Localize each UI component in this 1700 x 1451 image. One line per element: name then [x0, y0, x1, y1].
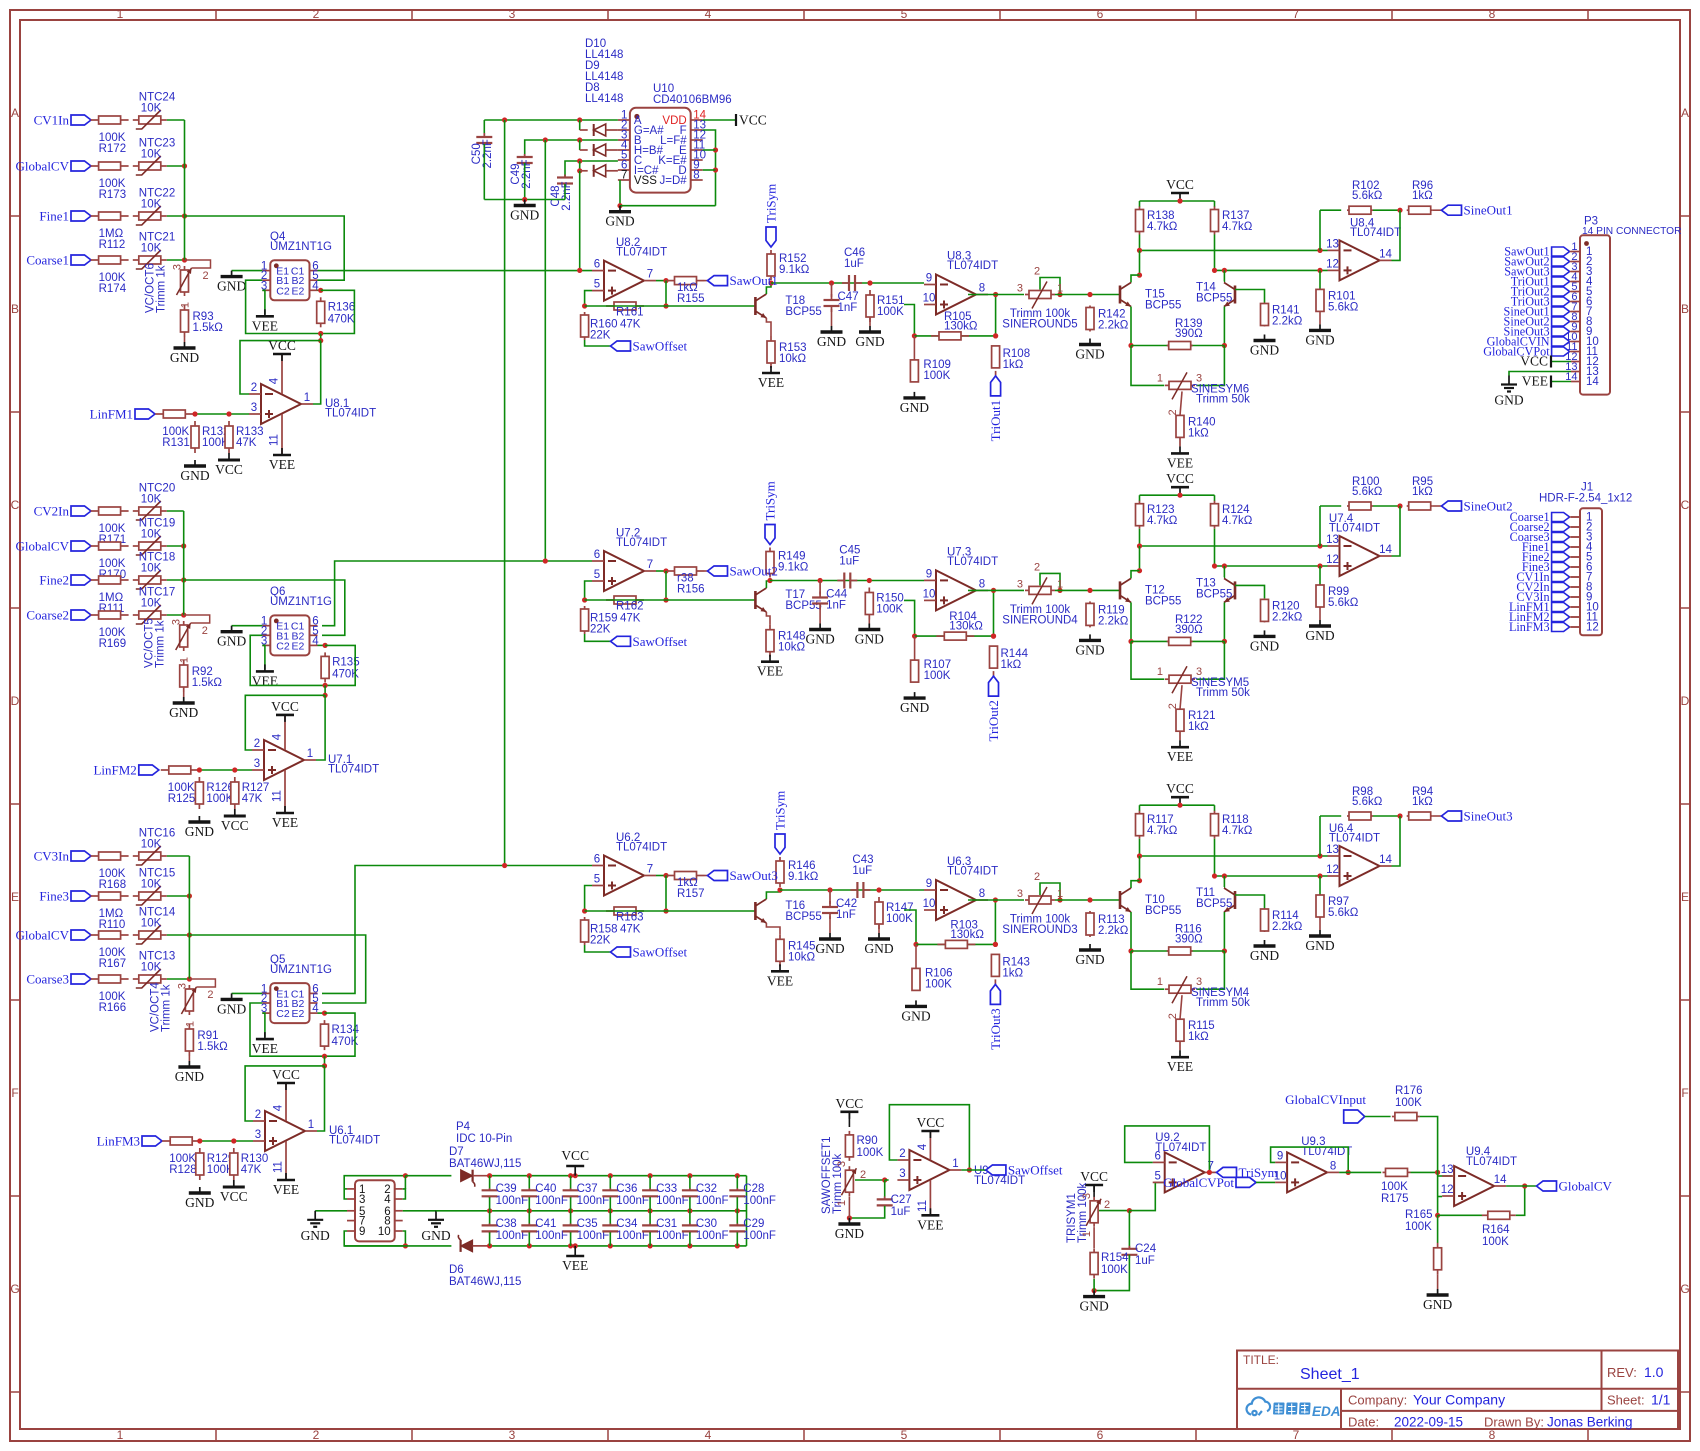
wire emitter: [766, 318, 771, 336]
svg-text:2: 2: [1167, 1013, 1179, 1019]
wire VCC rail: [1140, 494, 1215, 496]
net port SineOut3: [1442, 809, 1513, 824]
svg-text:2022-09-15: 2022-09-15: [1394, 1415, 1463, 1430]
svg-text:100K: 100K: [924, 670, 951, 682]
wire to ground: [1094, 1255, 1129, 1291]
svg-text:VSS: VSS: [634, 175, 657, 187]
svg-text:130kΩ: 130kΩ: [944, 320, 978, 332]
svg-text:7: 7: [647, 864, 653, 876]
svg-text:7: 7: [647, 269, 653, 281]
transistor T14: [1196, 282, 1235, 307]
svg-text:1: 1: [1157, 372, 1163, 384]
resistor R119: [1086, 601, 1129, 627]
svg-text:10K: 10K: [141, 494, 162, 506]
ground: [900, 392, 929, 415]
svg-text:E: E: [1681, 890, 1689, 904]
svg-text:VCC: VCC: [1166, 781, 1194, 796]
svg-text:1: 1: [308, 1119, 314, 1131]
connector P4 IDC 10-Pin: [347, 1121, 512, 1241]
transistor T15: [1120, 283, 1181, 312]
power VEE: [252, 309, 278, 333]
svg-text:VCC: VCC: [1080, 1169, 1108, 1184]
trimmer SINESYM5: [1157, 666, 1250, 699]
wire: [705, 280, 708, 282]
resistor R120: [1261, 598, 1303, 623]
svg-text:VEE: VEE: [1167, 1059, 1193, 1074]
wire collector: [766, 890, 780, 899]
wire to symmetry trimmer: [1131, 951, 1164, 989]
capacitor C43: [850, 854, 873, 898]
svg-text:1: 1: [1081, 1231, 1093, 1237]
svg-text:130kΩ: 130kΩ: [950, 929, 984, 941]
svg-text:GND: GND: [1250, 343, 1279, 358]
svg-text:3: 3: [255, 1129, 261, 1141]
resistor R123: [1136, 495, 1178, 529]
capacitor C36: [602, 1173, 649, 1213]
resistor R: [606, 596, 644, 613]
svg-text:3: 3: [836, 1161, 848, 1167]
svg-text:D7: D7: [449, 1146, 464, 1158]
svg-text:SawOffset: SawOffset: [633, 339, 688, 354]
wire CV sum bus: [183, 511, 185, 615]
wire Fine2 to B2: [184, 580, 345, 635]
net port SawOut1: [1504, 245, 1571, 259]
svg-text:BCP55: BCP55: [785, 600, 821, 612]
svg-text:100K: 100K: [1405, 1221, 1432, 1233]
svg-text:1: 1: [184, 1021, 196, 1027]
svg-text:1kΩ: 1kΩ: [1188, 1031, 1209, 1043]
svg-text:R176: R176: [1395, 1085, 1423, 1097]
net port Fine3: [39, 889, 91, 904]
svg-text:A: A: [11, 106, 19, 120]
net port Coarse2: [26, 608, 91, 623]
svg-text:TL074IDT: TL074IDT: [616, 537, 667, 549]
resistor R143: [991, 942, 1030, 980]
wire to output: [993, 590, 995, 636]
svg-text:1kΩ: 1kΩ: [1412, 796, 1433, 808]
net port GlobalCV: [16, 539, 91, 554]
wire to diff pair: [1055, 294, 1120, 296]
svg-text:R173: R173: [99, 189, 127, 201]
svg-text:R168: R168: [99, 879, 127, 891]
power VEE: [1167, 731, 1193, 764]
svg-text:C38: C38: [496, 1218, 517, 1230]
capacitor C41: [521, 1211, 568, 1249]
op-amp U8.3: [923, 251, 999, 315]
svg-text:GND: GND: [815, 941, 844, 956]
svg-text:GND: GND: [421, 1228, 450, 1243]
svg-text:SineOut1: SineOut1: [1464, 203, 1513, 218]
svg-text:VCC: VCC: [215, 462, 243, 477]
svg-text:GlobalCV: GlobalCV: [16, 928, 70, 943]
svg-text:9.1kΩ: 9.1kΩ: [778, 562, 809, 574]
svg-text:C24: C24: [1135, 1243, 1157, 1255]
svg-text:2: 2: [251, 382, 257, 394]
svg-text:VEE: VEE: [917, 1217, 943, 1232]
svg-text:TriSym: TriSym: [764, 184, 779, 223]
resistor R133: [225, 421, 264, 453]
svg-text:2: 2: [254, 738, 260, 750]
wire to non-inverting input: [193, 413, 249, 415]
wire feedback down: [665, 281, 667, 306]
svg-text:8: 8: [1489, 7, 1496, 21]
ground: [217, 626, 246, 649]
svg-text:GND: GND: [1494, 393, 1523, 408]
op-amp U8.4: [1326, 217, 1401, 280]
resistor R99: [1316, 566, 1359, 620]
wire: [705, 875, 708, 877]
ground: [835, 1218, 864, 1241]
svg-text:B: B: [1681, 302, 1689, 316]
wire pins 2 4: [403, 1189, 406, 1199]
wire: [167, 614, 184, 616]
net port LinFM1: [1509, 600, 1580, 614]
svg-text:BAT46WJ,115: BAT46WJ,115: [449, 1276, 521, 1288]
power VCC: [271, 699, 299, 830]
net port SawOffset: [611, 339, 688, 354]
net port CV3In: [1516, 590, 1580, 604]
wire feedback U9.3: [1271, 1147, 1349, 1172]
resistor R136: [317, 297, 356, 327]
trimmer SINEROUND4: [1002, 561, 1078, 626]
resistor R175: [1339, 1168, 1410, 1205]
label U8.2: [616, 237, 667, 259]
resistor R115: [1176, 1019, 1215, 1043]
svg-text:100K: 100K: [1101, 1264, 1128, 1276]
svg-text:TriOut2: TriOut2: [986, 700, 1001, 741]
wire E2 node: [318, 1012, 325, 1014]
svg-text:47K: 47K: [236, 437, 257, 449]
svg-text:VEE: VEE: [269, 457, 295, 472]
resistor R90: [845, 1131, 883, 1161]
power VCC: [1166, 177, 1194, 200]
resistor R172: [91, 116, 129, 155]
diode D9: [580, 140, 618, 156]
svg-text:2: 2: [1167, 703, 1179, 709]
wire CV sum bus: [184, 120, 186, 260]
svg-text:C31: C31: [656, 1218, 677, 1230]
svg-text:GlobalCV: GlobalCV: [16, 159, 70, 174]
svg-text:100nF: 100nF: [696, 1230, 729, 1242]
svg-text:C27: C27: [891, 1194, 912, 1206]
op-amp U8.1: [249, 382, 376, 424]
net port CV2In: [1516, 580, 1580, 594]
svg-text:1: 1: [1057, 578, 1063, 590]
capacitor C29: [729, 1211, 776, 1249]
svg-text:5.6kΩ: 5.6kΩ: [1328, 907, 1359, 919]
svg-text:R165: R165: [1405, 1209, 1433, 1221]
svg-text:SawOffset: SawOffset: [633, 634, 688, 649]
wire net C: [565, 161, 618, 177]
wire to +input: [585, 886, 592, 912]
trimmer TRISYM1: [1066, 1182, 1110, 1243]
svg-text:13: 13: [1326, 238, 1339, 250]
svg-text:Jonas Berking: Jonas Berking: [1547, 1415, 1633, 1430]
svg-text:10K: 10K: [141, 529, 162, 541]
svg-text:LinFM1: LinFM1: [90, 407, 133, 422]
wire E1 to ground: [232, 625, 263, 627]
svg-text:1kΩ: 1kΩ: [1001, 659, 1022, 671]
svg-text:4: 4: [705, 7, 712, 21]
svg-text:1uF: 1uF: [844, 258, 864, 270]
svg-text:13: 13: [1326, 844, 1339, 856]
svg-text:390Ω: 390Ω: [1175, 624, 1203, 636]
svg-text:SINEROUND3: SINEROUND3: [1002, 924, 1077, 936]
transistor T16: [755, 899, 821, 923]
svg-text:Trimm 1k: Trimm 1k: [156, 265, 168, 313]
wire to non-inverting input: [200, 1140, 253, 1142]
svg-text:11: 11: [273, 1161, 285, 1173]
svg-text:9.1kΩ: 9.1kΩ: [779, 264, 810, 276]
svg-text:3: 3: [251, 402, 257, 414]
wire left node to pin13: [1139, 529, 1141, 546]
op-amp U6.3: [923, 856, 999, 920]
svg-text:R136: R136: [328, 301, 356, 313]
svg-text:10kΩ: 10kΩ: [779, 353, 807, 365]
svg-text:2.2kΩ: 2.2kΩ: [1272, 921, 1303, 933]
svg-text:6: 6: [594, 549, 600, 561]
wire node: [324, 685, 326, 695]
capacitor C37: [563, 1173, 610, 1213]
wire wiper: [1180, 391, 1182, 415]
svg-text:C: C: [1681, 498, 1690, 512]
wire core net to inverting input: [318, 270, 593, 272]
capacitor C48: [550, 175, 573, 211]
resistor R156: [667, 567, 705, 596]
svg-text:GND: GND: [805, 632, 834, 647]
op-amp U7.1: [252, 738, 379, 780]
net port Fine1: [39, 209, 91, 224]
wire +input: [904, 600, 915, 636]
svg-text:TL074IDT: TL074IDT: [328, 764, 379, 776]
svg-text:10K: 10K: [141, 879, 162, 891]
svg-text:VEE: VEE: [252, 1041, 278, 1056]
wire wiper: [1180, 995, 1182, 1019]
svg-text:10K: 10K: [141, 839, 162, 851]
svg-text:C28: C28: [743, 1183, 764, 1195]
svg-text:1nF: 1nF: [838, 302, 858, 314]
svg-text:E2: E2: [291, 285, 304, 297]
svg-text:10: 10: [923, 588, 936, 600]
ground: [1075, 634, 1104, 657]
svg-text:GND: GND: [301, 1228, 330, 1243]
svg-text:100K: 100K: [1395, 1097, 1422, 1109]
svg-text:1.0: 1.0: [1644, 1364, 1664, 1380]
wire output: [656, 875, 666, 877]
net port SawOut3: [1504, 265, 1571, 279]
svg-text:GlobalCVPot: GlobalCVPot: [1163, 1175, 1234, 1190]
wire right node to pin12: [1214, 529, 1216, 566]
svg-text:100K: 100K: [857, 1147, 884, 1159]
svg-text:3: 3: [509, 1428, 516, 1442]
resistor R114: [1261, 908, 1303, 933]
ground: [301, 1211, 330, 1243]
net port LinFM1: [90, 407, 155, 422]
wire: [167, 978, 190, 980]
net port TriSym: [1217, 1165, 1278, 1180]
svg-text:22K: 22K: [590, 935, 611, 947]
op-amp U8.2: [592, 259, 656, 301]
power VEE: [252, 1032, 278, 1056]
svg-text:A: A: [1681, 106, 1689, 120]
wire left emitter: [1130, 307, 1132, 346]
resistor R171: [91, 507, 129, 546]
wire output up: [1373, 505, 1400, 507]
wire +line: [915, 635, 994, 637]
ground: [817, 309, 846, 349]
net port Coarse3: [26, 972, 91, 987]
resistor R154: [1090, 1227, 1129, 1278]
svg-text:Drawn By:: Drawn By:: [1484, 1415, 1544, 1430]
svg-text:13: 13: [1441, 1164, 1454, 1176]
resistor R165: [1405, 1209, 1442, 1275]
svg-text:1.5kΩ: 1.5kΩ: [192, 677, 223, 689]
svg-text:4: 4: [705, 1428, 712, 1442]
diode D6: [449, 1235, 521, 1288]
wire to diff pair: [1055, 899, 1120, 901]
svg-text:4: 4: [273, 1104, 285, 1111]
capacitor C40: [521, 1173, 568, 1213]
ground: [855, 318, 884, 349]
wire collector: [766, 283, 771, 294]
svg-text:UMZ1NT1G: UMZ1NT1G: [270, 596, 332, 608]
svg-text:Trimm 50k: Trimm 50k: [1196, 687, 1250, 699]
wire output: [656, 280, 666, 282]
svg-text:Sheet_1: Sheet_1: [1300, 1366, 1360, 1383]
wire: [167, 510, 184, 512]
trimmer SAWOFFSET1: [821, 1136, 866, 1214]
wire left collector: [1139, 250, 1141, 275]
net port SawOffset: [611, 634, 688, 649]
svg-text:R163: R163: [616, 912, 644, 924]
wire emitter: [766, 923, 780, 934]
power VEE: [1167, 437, 1193, 470]
trimmer VC/OCT4: [149, 979, 215, 1032]
wire: [167, 215, 185, 217]
svg-text:10K: 10K: [141, 103, 162, 115]
svg-text:Coarse1: Coarse1: [26, 253, 69, 268]
wire collector row: [780, 889, 924, 891]
svg-text:1kΩ: 1kΩ: [1412, 486, 1433, 498]
label U7.2: [616, 528, 667, 550]
svg-text:4: 4: [272, 733, 284, 740]
wire output feedback: [317, 1066, 325, 1131]
svg-text:TL074IDT: TL074IDT: [947, 866, 998, 878]
op-amp U7.4: [1326, 513, 1392, 576]
wire emitter: [766, 612, 770, 625]
trimmer SINEROUND3: [1002, 871, 1077, 936]
svg-text:GlobalCV: GlobalCV: [16, 539, 70, 554]
power VEE flag pin14: [1522, 374, 1571, 389]
net port LinFM2: [93, 763, 158, 778]
svg-text:130kΩ: 130kΩ: [949, 621, 983, 633]
svg-text:C30: C30: [696, 1218, 717, 1230]
ground: [1305, 930, 1334, 953]
resistor R142: [1086, 306, 1129, 332]
resistor R137: [1211, 201, 1253, 235]
wire VEE rail: [344, 1245, 451, 1247]
svg-text:BCP55: BCP55: [785, 306, 821, 318]
svg-text:47K: 47K: [620, 924, 641, 936]
svg-text:9: 9: [926, 273, 932, 285]
svg-text:3: 3: [1017, 283, 1023, 295]
net port Coarse1: [26, 253, 91, 268]
resistor R124: [1211, 495, 1253, 529]
svg-text:2: 2: [1104, 1199, 1110, 1211]
svg-text:C32: C32: [696, 1183, 717, 1195]
wire right base: [1235, 290, 1265, 303]
svg-text:CV2In: CV2In: [34, 504, 70, 519]
resistor R105: [931, 311, 978, 340]
ground: [805, 607, 834, 647]
svg-text:2.2kΩ: 2.2kΩ: [1098, 615, 1129, 627]
wire node to U9.4: [1437, 1172, 1439, 1215]
svg-text:14: 14: [1586, 376, 1599, 388]
svg-text:GND: GND: [855, 632, 884, 647]
wire left collector: [1139, 856, 1141, 881]
net port TriOut1: [988, 371, 1003, 441]
svg-text:1kΩ: 1kΩ: [1188, 721, 1209, 733]
resistor R92: [180, 660, 223, 692]
capacitor C28: [729, 1173, 776, 1213]
ground: [1079, 1291, 1108, 1314]
wire pin5 to ground: [315, 1210, 347, 1212]
svg-text:GND: GND: [217, 634, 246, 649]
ground: [605, 206, 634, 229]
wire GlobalCV to B2: [189, 935, 365, 1003]
wire to output: [1516, 1186, 1525, 1215]
svg-text:P4: P4: [456, 1121, 471, 1133]
thermistor NTC17: [133, 587, 175, 625]
wire pins 9 to VEE rail: [344, 1231, 405, 1246]
svg-text:D: D: [1681, 694, 1690, 708]
resistor R145: [776, 934, 816, 966]
svg-text:100K: 100K: [877, 306, 904, 318]
net port SawOut2: [708, 564, 778, 579]
thermistor NTC20: [133, 483, 175, 521]
wire right emitter: [1223, 912, 1225, 951]
svg-text:GND: GND: [217, 279, 246, 294]
svg-text:4.7kΩ: 4.7kΩ: [1147, 825, 1178, 837]
wire base line: [585, 910, 756, 912]
svg-text:J=D#: J=D#: [660, 175, 688, 187]
svg-text:100K: 100K: [876, 604, 903, 616]
wire wiper: [1099, 1210, 1129, 1212]
svg-text:F: F: [1681, 1086, 1688, 1100]
svg-text:Trimm 1k: Trimm 1k: [160, 984, 172, 1032]
svg-text:3: 3: [254, 758, 260, 770]
svg-text:R156: R156: [677, 584, 705, 596]
wire: [167, 119, 185, 121]
svg-text:1kΩ: 1kΩ: [1002, 967, 1023, 979]
resistor R157: [667, 872, 705, 901]
resistor R129: [196, 1148, 235, 1180]
wire VEE rail right: [490, 1245, 747, 1247]
wire to SawOffset: [585, 945, 611, 952]
svg-text:GND: GND: [1075, 952, 1104, 967]
net port TriSym: [764, 184, 779, 247]
title block: [1237, 1351, 1678, 1430]
JLCEDA logo: [1247, 1397, 1341, 1419]
svg-text:2: 2: [207, 989, 213, 1001]
svg-text:BCP55: BCP55: [1145, 300, 1181, 312]
svg-text:Trimm 50k: Trimm 50k: [1196, 997, 1250, 1009]
svg-text:10K: 10K: [141, 918, 162, 930]
svg-text:CD40106BM96: CD40106BM96: [653, 94, 732, 106]
svg-text:TL074IDT: TL074IDT: [947, 260, 998, 272]
svg-text:12: 12: [1326, 258, 1339, 270]
wire node: [324, 1056, 326, 1066]
